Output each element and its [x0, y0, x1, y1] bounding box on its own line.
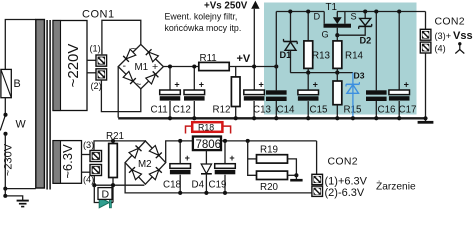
zener diode D1: [280, 12, 298, 73]
svg-text:końcówka mocy itp.: końcówka mocy itp.: [165, 23, 242, 33]
svg-text:M1: M1: [135, 62, 149, 73]
wire C14 branch (drain rail feed): [275, 12, 277, 91]
svg-text:C11: C11: [151, 105, 168, 116]
wire CON2 pin4 to ground: [425, 53, 427, 122]
svg-text:(4): (4): [83, 175, 94, 185]
junction ground rail end: [423, 116, 427, 120]
svg-text:R12: R12: [213, 105, 231, 116]
svg-text:+: +: [259, 79, 264, 89]
ground (mains earth): [17, 201, 29, 207]
svg-text:R18: R18: [198, 123, 214, 133]
svg-text:C16: C16: [378, 105, 397, 116]
regulator 7806: [193, 137, 221, 151]
wire CON pin3 to AC rail: [94, 141, 145, 151]
svg-text:(3)+: (3)+: [435, 31, 452, 41]
fuse B: [1, 69, 21, 97]
svg-text:Żarzenie: Żarzenie: [376, 180, 416, 193]
svg-text:~230V: ~230V: [2, 143, 14, 176]
wire to mains earth: [5, 189, 22, 200]
svg-text:C14: C14: [277, 105, 296, 116]
capacitor C19: [209, 141, 236, 193]
capacitor C13: [244, 79, 272, 118]
svg-text:CON2: CON2: [435, 16, 465, 28]
resistor R15: [333, 73, 362, 119]
connector CON2 bottom terminal block: [312, 174, 323, 196]
svg-text:-: -: [123, 60, 127, 72]
transformer TR primary winding: [36, 20, 45, 189]
transistor T1 (MOSFET): [314, 2, 357, 40]
transformer core: [47, 20, 50, 190]
svg-text:C19: C19: [209, 180, 227, 191]
svg-text:~6.3V: ~6.3V: [60, 144, 75, 179]
svg-text:~: ~: [131, 44, 137, 55]
junction R13 top: [306, 9, 310, 13]
wire R19/R20 left branch: [248, 141, 257, 175]
chassis symbol at pin4: [455, 42, 464, 53]
svg-text:C15: C15: [310, 105, 329, 116]
svg-text:M2: M2: [138, 159, 152, 170]
wire pin4 node horizontal: [94, 184, 144, 186]
junction R14/R15 node: [335, 71, 339, 75]
wire CON1 pin1 to bridge AC top: [102, 20, 141, 54]
svg-text:D: D: [102, 189, 110, 201]
svg-text:G: G: [322, 30, 329, 40]
zener diode D2: [359, 12, 372, 46]
svg-text:+: +: [174, 79, 179, 89]
junction D1 top: [288, 9, 292, 13]
resistor R11: [199, 53, 229, 71]
svg-text:D4: D4: [192, 180, 205, 191]
capacitor C12: [173, 67, 205, 119]
resistor R19: [257, 145, 288, 164]
highlight region (filter block background): [264, 3, 417, 115]
svg-text:C17: C17: [399, 105, 417, 116]
diode D4: [192, 150, 212, 193]
svg-text:+: +: [185, 153, 190, 163]
svg-text:W: W: [16, 119, 27, 131]
wire R19 right to R20 right: [288, 159, 297, 179]
ground (main 0V): [418, 121, 434, 124]
svg-text:D3: D3: [354, 71, 365, 81]
junction R13/C15 node: [306, 71, 310, 75]
drain rail (top rail): [276, 11, 324, 13]
svg-text:S: S: [351, 12, 357, 22]
svg-text:(3): (3): [83, 140, 94, 150]
wire M2 left corner down: [125, 163, 312, 193]
LED D (green): [99, 197, 113, 208]
svg-text:(2)-6.3V: (2)-6.3V: [325, 187, 365, 199]
capacitor C11: [151, 67, 181, 119]
wire gate to D2: [337, 26, 365, 35]
svg-text:+: +: [404, 79, 409, 89]
gate divider mid rail: [290, 72, 353, 74]
+V rail after R11: [229, 66, 276, 68]
resistor R13: [304, 12, 331, 73]
junction pin4 node: [92, 183, 96, 187]
svg-text:CON2: CON2: [328, 156, 358, 168]
svg-text:(1): (1): [90, 44, 101, 54]
bridge rectifier M1: [118, 44, 163, 88]
svg-text:(2): (2): [91, 81, 102, 91]
svg-text:C18: C18: [163, 180, 182, 191]
svg-text:+: +: [152, 61, 158, 73]
junction primary bottom: [3, 187, 7, 191]
wire source rail to CON2 pin3: [425, 12, 427, 30]
capacitor C18: [163, 141, 191, 193]
ground (R19/R20 node): [290, 179, 302, 182]
diode D3 (blue): [346, 71, 365, 119]
svg-text:R20: R20: [260, 182, 279, 193]
junction gate node: [335, 33, 339, 37]
resistor R14: [333, 35, 364, 72]
wire LED branch down: [94, 186, 99, 203]
svg-text:(4): (4): [435, 44, 446, 54]
junction D2 top: [363, 9, 367, 13]
annotation R18 (red): [186, 122, 231, 133]
svg-text:R11: R11: [200, 53, 217, 64]
svg-text:+: +: [229, 153, 234, 163]
svg-text:C12: C12: [173, 105, 191, 116]
junction R20 right: [294, 173, 298, 177]
source rail after T1: [337, 11, 426, 13]
node +Vs arrow: [251, 1, 259, 90]
svg-text:~: ~: [136, 80, 142, 91]
svg-text:R13: R13: [312, 51, 331, 62]
svg-text:R19: R19: [260, 145, 278, 156]
transformer secondary ~6.3V: [53, 141, 82, 184]
svg-text:Ewent. kolejny filtr,: Ewent. kolejny filtr,: [165, 12, 238, 22]
wire bridge minus down to ground rail: [117, 67, 119, 118]
svg-text:Vss: Vss: [453, 30, 473, 42]
svg-text:D: D: [314, 12, 321, 22]
junction R21 top: [111, 139, 115, 143]
svg-text:+: +: [199, 79, 204, 89]
wire CON pin4 junction: [93, 176, 95, 186]
svg-text:D1: D1: [280, 50, 292, 60]
svg-text:T1: T1: [326, 2, 337, 13]
wire CON1 pin2 to bridge AC bottom: [101, 80, 140, 112]
wire 6.3V winding to CON pin4: [82, 171, 91, 173]
resistor R12: [213, 67, 241, 119]
switch W: [0, 113, 26, 136]
wire 220V winding to CON1 pin2: [87, 72, 96, 74]
label box D: [98, 188, 112, 201]
wire 6.3V winding to CON pin3: [82, 154, 91, 156]
capacitor C14: [266, 90, 295, 118]
wire fuse to switch: [4, 98, 6, 114]
capacitor C16: [366, 12, 396, 119]
svg-text:+Vs 250V: +Vs 250V: [204, 1, 248, 12]
capacitor C15: [298, 73, 328, 119]
capacitor C17: [389, 12, 417, 119]
connector CON1 bottom terminal block: [90, 151, 102, 176]
junction earth stub: [3, 194, 7, 198]
svg-text:+: +: [313, 80, 318, 90]
wire switch down to primary bottom: [5, 134, 36, 189]
svg-text:~220V: ~220V: [65, 44, 82, 88]
resistor R20: [257, 171, 288, 193]
svg-text:CON1: CON1: [82, 9, 115, 21]
bridge rectifier M2: [125, 141, 166, 184]
junction R21 bottom: [111, 183, 115, 187]
wire mains top: [5, 20, 36, 70]
svg-text:R14: R14: [345, 51, 364, 62]
svg-text:R21: R21: [106, 131, 124, 142]
output rail bottom (after M2): [166, 141, 317, 163]
junction R19/R20 branch: [246, 139, 250, 143]
wire 220V winding to CON1 pin1: [87, 59, 96, 61]
svg-text:C13: C13: [253, 105, 272, 116]
svg-text:7806: 7806: [196, 139, 222, 151]
ground rail (0V): [118, 117, 425, 119]
junction +V rail to C14 branch: [274, 64, 278, 68]
+V rail from bridge: [163, 66, 198, 68]
transformer secondary ~220V: [53, 21, 87, 111]
svg-text:(1)+6.3V: (1)+6.3V: [325, 176, 368, 188]
resistor R21: [106, 131, 124, 203]
svg-text:+V: +V: [237, 53, 251, 65]
connector CON1 terminal block: [96, 55, 107, 80]
connector CON2 top terminal block: [420, 29, 431, 53]
wire output rail to CON2 pin1: [316, 141, 318, 174]
svg-text:B: B: [14, 78, 21, 90]
svg-text:D2: D2: [360, 36, 372, 46]
